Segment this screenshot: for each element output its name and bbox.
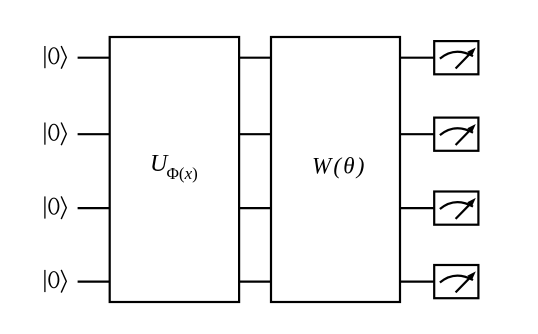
meter q1 — [434, 118, 478, 151]
meter q0 — [434, 41, 478, 74]
meter q2 — [434, 192, 478, 225]
qubit label |0> q3 — [45, 270, 66, 293]
wire q0 output — [399, 57, 435, 59]
qubit label |0> q1 — [45, 123, 66, 146]
wire q3 mid — [238, 281, 272, 283]
gate box W(theta) — [271, 37, 400, 302]
svg-text:Φ(x): Φ(x) — [167, 164, 198, 183]
wire q3 input — [78, 281, 111, 283]
wire q0 input — [78, 57, 111, 59]
label W(theta) — [312, 154, 367, 179]
gate box U_Phi(x) — [110, 37, 239, 302]
label U_Phi(x) — [150, 151, 198, 183]
qubit label |0> q0 — [45, 46, 66, 69]
wire q1 output — [399, 133, 435, 135]
wire q1 input — [78, 133, 111, 135]
wire q1 mid — [238, 133, 272, 135]
wire q2 mid — [238, 207, 272, 209]
qubit label |0> q2 — [45, 196, 66, 219]
svg-text:W(θ): W(θ) — [312, 154, 367, 179]
wire q0 mid — [238, 57, 272, 59]
wire q2 input — [78, 207, 111, 209]
meter q3 — [434, 265, 478, 298]
wire q2 output — [399, 207, 435, 209]
wire q3 output — [399, 281, 435, 283]
